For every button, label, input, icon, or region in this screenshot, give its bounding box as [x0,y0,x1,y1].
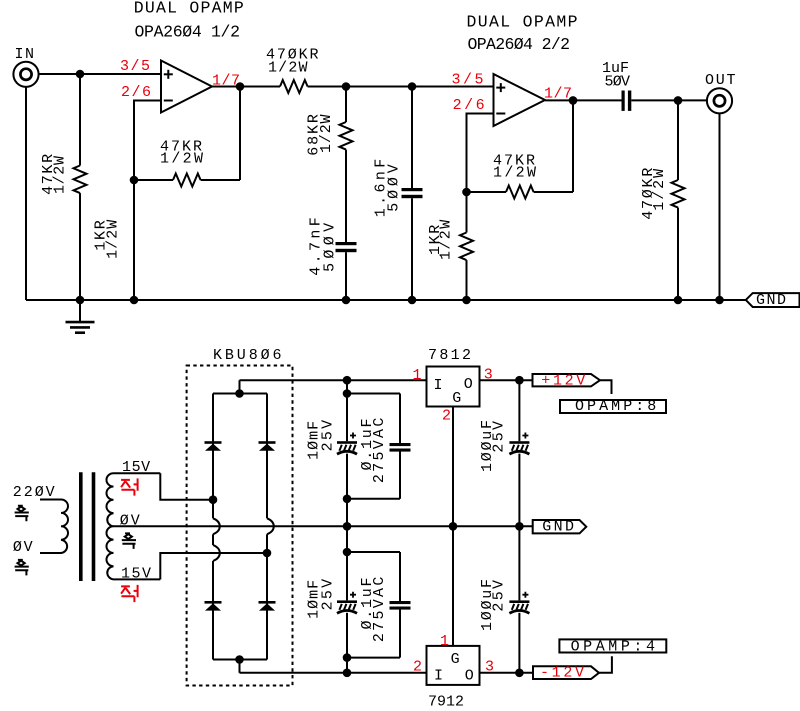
flag -12V [533,666,599,679]
wire OUT jack down to ground rail [719,113,721,300]
svg-text:G: G [452,390,461,407]
capacitor C8 100uF 25V (upper electrolytic) [509,433,529,455]
svg-text:7912: 7912 [428,693,464,710]
svg-text:OUT: OUT [705,72,736,89]
node: feedback junction at 466.5,192 [462,188,471,197]
svg-text:GND: GND [542,518,574,535]
output filter rail x=519.4 [518,380,520,441]
svg-text:1/2W: 1/2W [105,220,122,259]
ground rail (audio section) [26,299,746,301]
wire U1B out [545,99,622,101]
diode D1 (top-left) [205,441,222,444]
node: junction 412,86.5 [408,82,417,91]
label red lead hangul jeok (bottom) [121,585,138,602]
capacitor C2 1.6nF 500V [411,87,413,189]
svg-text:2: 2 [413,658,422,675]
svg-text:25V: 25V [319,420,336,452]
svg-text:25V: 25V [490,421,507,453]
svg-text:15V: 15V [121,566,151,583]
svg-text:1: 1 [413,367,422,384]
svg-text:DUAL OPAMP: DUAL OPAMP [134,0,244,17]
capacitor C5 0.1uF 275VAC (upper) [390,443,411,446]
svg-text:O: O [465,667,474,684]
+V unregulated rail [240,379,427,381]
svg-text:O: O [464,376,473,393]
GND flag (audio right) [746,293,800,307]
transformer T1 core [79,472,83,581]
svg-text:DUAL OPAMP: DUAL OPAMP [467,12,578,31]
filter rail x=347 [346,380,348,441]
svg-text:ØV: ØV [13,539,33,556]
node: 15V bottom tap into bridge [263,549,272,558]
resistor R2 47KR feedback U1A [134,179,173,181]
svg-text:3/5: 3/5 [120,58,150,75]
svg-text:2/6: 2/6 [453,97,485,114]
capacitor C9 100uF 25V (lower electrolytic) [509,592,529,614]
svg-text:2/6: 2/6 [121,84,151,101]
svg-text:OPA26Ø4 1/2: OPA26Ø4 1/2 [135,23,241,42]
capacitor C4 10mF 25V (upper electrolytic) [337,433,357,455]
bridge top bar [213,393,267,395]
node dots on filter rail x=347 [343,376,352,385]
diode D3 (bottom-left) [205,601,222,604]
svg-text:5ØV: 5ØV [605,73,631,90]
wire 0.1uF loop (lower) [347,551,400,553]
bridge left leg wire with hops [212,394,214,519]
ground symbol [79,300,81,321]
svg-text:OPAMP:4: OPAMP:4 [571,638,655,655]
wire +12V flag to OPAMP:8 [600,380,612,394]
diode D4 (bottom-right) [259,601,276,604]
label red lead hangul jeok (top) [121,478,138,495]
svg-text:G: G [451,651,460,668]
node: IN/47KR junction [76,70,85,79]
wire U1B -in left and down [467,114,494,193]
resistor R8 470KR 1/2W (vertical at x=678) [677,100,679,180]
transformer T1 primary winding [40,500,68,554]
bridge bottom bar [213,659,267,661]
svg-text:1/2W: 1/2W [651,169,668,211]
node: output junction 678,100.4 [674,96,683,105]
resistor R6 47KR feedback U1B [467,191,507,193]
wire U1A -in left and down [134,101,161,181]
node: U2 G / GND rail [449,522,458,531]
label black lead (primary top) hangul heuk [15,506,29,521]
wire to OUT jack [678,99,707,101]
connector OUT jack [707,88,732,113]
svg-text:OPAMP:8: OPAMP:8 [575,398,656,415]
wire 0.1uF loop (upper) [347,393,400,395]
op-amp U1A [161,61,212,113]
wire -12V flag to OPAMP:4 [599,656,612,673]
bridge right leg wire with hop [266,394,268,519]
svg-text:1/2W: 1/2W [318,114,335,153]
svg-text:1/2W: 1/2W [268,60,308,77]
svg-text:I: I [434,667,443,684]
svg-text:25V: 25V [490,580,507,612]
diode D2 (top-right) [259,441,276,444]
flag OPAMP:8 [560,400,666,413]
node: U1B output junction [569,96,578,105]
node: 15V top tap into bridge [209,495,218,504]
wire -12V output rail [480,672,534,674]
label black lead (primary bottom) hangul heuk [15,560,29,576]
capacitor C7 0.1uF 275VAC (lower) [390,601,411,604]
GND rail (0V) across power section [114,525,533,527]
svg-text:1/2W: 1/2W [52,156,69,194]
svg-text:1/2W: 1/2W [437,220,454,260]
resistor R4 470KR 1/2W (horizontal) [280,80,308,93]
resistor R1 47KR 1/2W (vertical at x=80) [79,74,81,166]
svg-text:3/5: 3/5 [452,71,484,88]
bridge rectifier dashed box [187,366,293,686]
regulator U3 7912 [427,646,480,685]
wire U3 ground pin to GND rail [452,526,454,646]
op-amp U1B [494,74,546,126]
resistor R7 1KR 1/2W (vertical at x=466.5) [466,192,468,233]
wire IN to op-amp U1A +in [39,73,161,75]
wire secondary 15V top tap to bridge [160,473,213,500]
svg-text:IN: IN [15,46,35,63]
flag OPAMP:4 [559,639,666,652]
flag GND (power mid) [533,520,587,533]
svg-text:GND: GND [756,292,786,309]
transformer T1 secondary winding [106,473,160,579]
svg-text:2: 2 [442,408,451,425]
resistor R5 68KR 1/2W (vertical at x=346) [345,87,347,123]
svg-text:15V: 15V [122,459,150,476]
wire IN jack down to ground rail [25,87,27,300]
svg-text:25V: 25V [319,579,336,611]
connector IN jack [13,62,38,87]
svg-text:I: I [434,377,443,394]
node: junction 346,86.5 [342,82,351,91]
capacitor C3 1uF 50V [622,91,625,111]
svg-text:OPA26Ø4 2/2: OPA26Ø4 2/2 [468,35,571,54]
node: feedback junction at 134,180 [130,176,139,185]
wire U1A out [212,86,280,88]
wire secondary 15V bottom tap to bridge [160,553,267,579]
label black lead hangul heuk (center tap) [122,533,136,549]
-V unregulated rail [240,672,427,674]
resistor R3 1KR 1/2W (plain wire at x=134) [133,180,135,300]
node dots on ground rail [76,296,85,305]
svg-text:1: 1 [440,633,449,650]
node: U1A output junction [236,82,245,91]
capacitor C1 4.7nF 500V [336,242,357,245]
wire +12V output rail [480,379,533,381]
flag +12V [533,374,601,386]
capacitor C6 10mF 25V (lower electrolytic) [337,592,357,614]
wire U2 ground pin to GND rail [452,407,454,527]
